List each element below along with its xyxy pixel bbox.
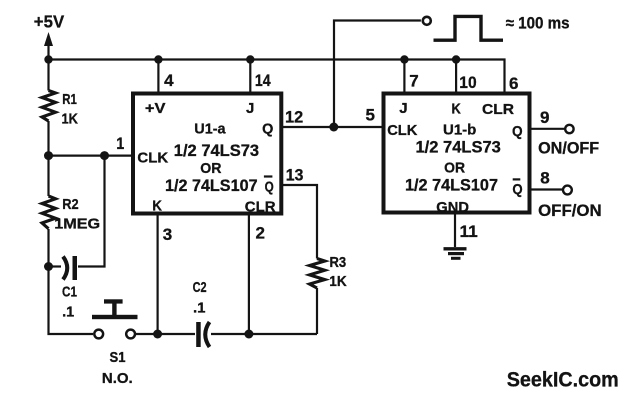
svg-text:8: 8 bbox=[540, 169, 549, 188]
svg-text:1/2 74LS73: 1/2 74LS73 bbox=[174, 142, 259, 160]
svg-text:14: 14 bbox=[255, 72, 271, 90]
svg-text:U1-a: U1-a bbox=[194, 121, 226, 137]
svg-text:SeekIC.com: SeekIC.com bbox=[507, 368, 619, 392]
svg-text:N.O.: N.O. bbox=[102, 370, 133, 387]
svg-text:1/2 74LS73: 1/2 74LS73 bbox=[416, 139, 501, 157]
svg-text:S1: S1 bbox=[110, 348, 126, 365]
svg-text:K: K bbox=[452, 99, 461, 116]
svg-text:1: 1 bbox=[116, 135, 124, 153]
svg-text:7: 7 bbox=[409, 72, 418, 91]
svg-text:13: 13 bbox=[286, 166, 304, 185]
svg-text:.1: .1 bbox=[193, 299, 206, 316]
svg-text:6: 6 bbox=[509, 74, 518, 93]
svg-text:≈ 100 ms: ≈ 100 ms bbox=[506, 15, 570, 33]
svg-text:GND: GND bbox=[436, 200, 469, 216]
svg-text:5: 5 bbox=[366, 105, 375, 124]
svg-text:11: 11 bbox=[460, 221, 479, 241]
svg-text:10: 10 bbox=[459, 74, 476, 93]
svg-text:C1: C1 bbox=[62, 283, 77, 300]
svg-text:Q: Q bbox=[262, 121, 273, 137]
svg-text:J: J bbox=[399, 100, 407, 117]
svg-text:Q: Q bbox=[265, 178, 274, 195]
svg-text:J: J bbox=[246, 100, 254, 117]
svg-text:+5V: +5V bbox=[34, 11, 65, 31]
svg-text:Q: Q bbox=[512, 180, 522, 197]
svg-text:1K: 1K bbox=[329, 273, 347, 290]
svg-text:+V: +V bbox=[145, 101, 166, 117]
svg-text:C2: C2 bbox=[193, 278, 207, 295]
svg-text:CLK: CLK bbox=[387, 123, 417, 139]
svg-text:1/2 74LS107: 1/2 74LS107 bbox=[165, 177, 258, 195]
svg-text:1K: 1K bbox=[62, 109, 78, 126]
svg-text:3: 3 bbox=[163, 225, 172, 244]
svg-text:1/2 74LS107: 1/2 74LS107 bbox=[405, 176, 498, 194]
svg-text:Q: Q bbox=[512, 123, 523, 140]
svg-text:2: 2 bbox=[256, 223, 265, 242]
svg-text:4: 4 bbox=[164, 71, 174, 90]
svg-text:R2: R2 bbox=[62, 195, 79, 212]
svg-text:OFF/ON: OFF/ON bbox=[538, 201, 602, 220]
svg-text:R3: R3 bbox=[330, 253, 347, 270]
svg-text:.1: .1 bbox=[62, 304, 74, 320]
svg-text:CLR: CLR bbox=[245, 198, 276, 215]
svg-text:U1-b: U1-b bbox=[443, 121, 476, 138]
svg-text:1MEG: 1MEG bbox=[54, 216, 100, 232]
svg-text:OR: OR bbox=[200, 161, 222, 177]
svg-text:CLK: CLK bbox=[137, 149, 168, 166]
svg-text:K: K bbox=[152, 198, 162, 215]
svg-text:ON/OFF: ON/OFF bbox=[538, 139, 599, 157]
svg-text:OR: OR bbox=[444, 160, 465, 177]
svg-text:R1: R1 bbox=[62, 91, 77, 108]
svg-text:CLR: CLR bbox=[482, 101, 514, 118]
svg-text:9: 9 bbox=[540, 108, 549, 127]
svg-text:12: 12 bbox=[285, 107, 303, 126]
